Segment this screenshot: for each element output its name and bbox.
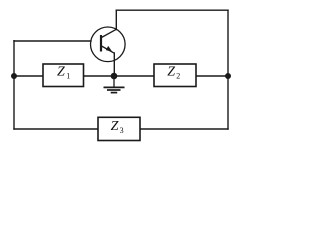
wire left vertical: [13, 41, 15, 129]
wire bottom rail left: [14, 128, 98, 130]
wire collector vertical: [115, 10, 117, 29]
svg-text:Z: Z: [167, 65, 175, 80]
wire emitter vertical: [113, 53, 115, 76]
node A: [11, 73, 17, 79]
impedance Z3: [98, 117, 140, 140]
wire mid row node A to Z1: [14, 75, 43, 77]
node B: [225, 73, 231, 79]
wire emitter node to Z2: [114, 75, 154, 77]
wire Z2 to node B: [196, 75, 228, 77]
ground: [104, 76, 125, 93]
impedance Z2: [154, 64, 196, 87]
wire top rail: [116, 9, 228, 11]
wire base horizontal: [14, 40, 91, 42]
svg-text:2: 2: [176, 72, 180, 81]
impedance Z1: [43, 64, 84, 87]
svg-text:Z: Z: [57, 65, 65, 80]
wire right vertical: [227, 10, 229, 129]
svg-text:1: 1: [66, 71, 70, 80]
svg-text:Z: Z: [111, 119, 119, 134]
node E (emitter junction): [111, 73, 118, 80]
transistor Q1: [91, 27, 126, 62]
wire Z1 to emitter node: [84, 75, 115, 77]
wire bottom rail right: [140, 128, 228, 130]
svg-text:3: 3: [120, 126, 124, 135]
